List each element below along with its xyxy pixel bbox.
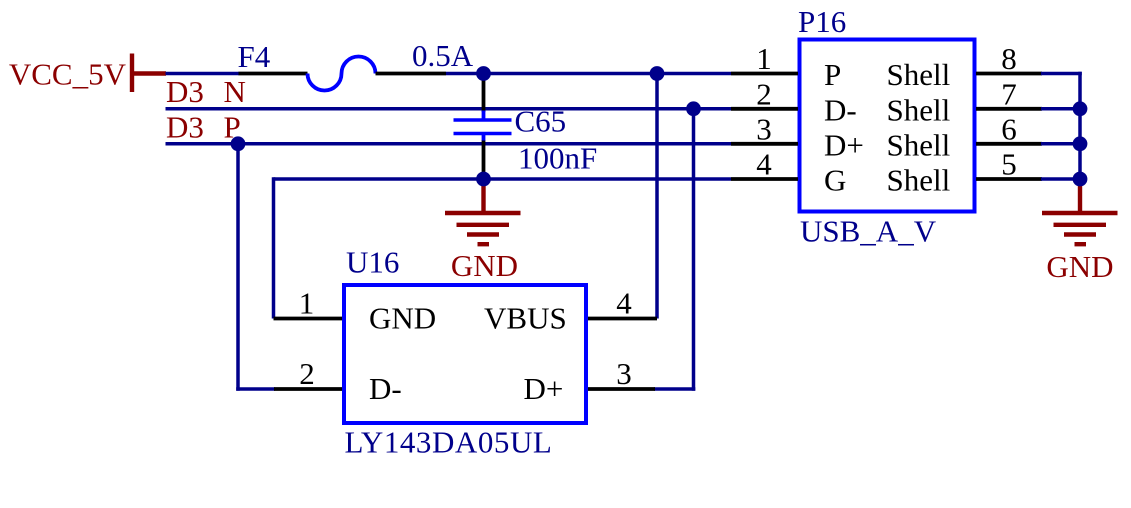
U16 pin 2 wire: [274, 387, 342, 391]
svg-text:1: 1: [756, 41, 772, 76]
junction at GND node: [476, 172, 491, 187]
svg-text:3: 3: [616, 356, 632, 391]
op-amp U16 body: [344, 285, 586, 423]
svg-text:D-: D-: [369, 371, 402, 406]
U16 pin 4 wire: [588, 317, 657, 321]
svg-text:G: G: [824, 163, 846, 198]
U16 pin 1 wire: [274, 317, 343, 321]
svg-text:D+: D+: [524, 371, 564, 406]
svg-text:4: 4: [616, 286, 632, 321]
power port VCC_5V: [9, 54, 166, 93]
wire net GND vertical branch x=273.5: [272, 177, 276, 318]
svg-text:Shell: Shell: [887, 163, 951, 198]
P16 pin 2 wire: [731, 107, 798, 111]
ground symbol GND right: [1042, 179, 1118, 284]
svg-text:2: 2: [299, 356, 315, 391]
junction shell row5: [1073, 172, 1088, 187]
wire net VCC vertical branch x=657 to U16 VBUS: [655, 74, 659, 319]
junction at VBUS branch: [650, 66, 665, 81]
wire net GND row4: [274, 177, 732, 181]
svg-text:C65: C65: [515, 104, 567, 139]
svg-text:D+: D+: [824, 127, 864, 162]
svg-text:U16: U16: [346, 245, 399, 280]
junction shell row7: [1073, 101, 1088, 116]
fuse F4 pin 1: [239, 72, 308, 76]
svg-text:7: 7: [1001, 76, 1017, 111]
wire net D3_N vertical branch x=693.5 to U16 D+: [692, 109, 696, 391]
svg-text:0.5A: 0.5A: [412, 38, 474, 73]
capacitor C65 body: [454, 111, 512, 142]
svg-text:3: 3: [756, 111, 772, 146]
junction shell row6: [1073, 136, 1088, 151]
U16 pin 3 wire: [588, 387, 655, 391]
svg-text:VCC_5V: VCC_5V: [9, 57, 127, 92]
svg-text:1: 1: [299, 286, 315, 321]
svg-text:Shell: Shell: [887, 92, 951, 127]
fuse F4 pin 2: [376, 72, 447, 76]
P16 pin 6 wire: [976, 142, 1042, 146]
svg-text:P16: P16: [798, 4, 846, 39]
wire shell net vertical x=1080: [1078, 72, 1082, 179]
svg-text:6: 6: [1001, 111, 1017, 146]
svg-text:D3: D3: [166, 74, 204, 109]
wire net VCC row1 left segment: [166, 72, 240, 76]
P16 pin 7 wire: [976, 107, 1042, 111]
junction at D3_N / U16 D+ branch: [686, 101, 701, 116]
junction at D3_P / U16 D- branch: [231, 136, 246, 151]
P16 pin 5 wire: [976, 177, 1042, 181]
svg-text:VBUS: VBUS: [484, 301, 567, 336]
wire net D3_P horizontal to U16 pin 2: [236, 387, 275, 391]
wire net D3_N horizontal to U16 pin 3: [654, 387, 695, 391]
svg-text:GND: GND: [1046, 249, 1113, 284]
wire shell net row8: [1041, 72, 1082, 76]
wire net D3_P row3: [166, 142, 732, 146]
P16 pin 1 wire: [731, 72, 798, 76]
svg-text:LY143DA05UL: LY143DA05UL: [345, 425, 553, 460]
svg-text:D-: D-: [824, 92, 857, 127]
P16 pin 3 wire: [731, 142, 798, 146]
svg-text:N: N: [224, 74, 246, 109]
ground symbol GND left: [445, 179, 521, 283]
svg-text:2: 2: [756, 76, 772, 111]
connector P16 body: [800, 40, 975, 212]
P16 pin 4 wire: [731, 177, 798, 181]
svg-text:GND: GND: [369, 301, 436, 336]
junction at fuse/cap node: [476, 66, 491, 81]
svg-text:USB_A_V: USB_A_V: [800, 214, 937, 249]
P16 pin 8 wire: [976, 72, 1042, 76]
wire net D3_P vertical branch x=238: [236, 144, 240, 391]
svg-text:5: 5: [1001, 147, 1017, 182]
svg-text:Shell: Shell: [887, 127, 951, 162]
wire shell net row5: [1041, 177, 1080, 181]
fuse F4 body: [308, 56, 376, 90]
wire shell net row6: [1041, 142, 1080, 146]
svg-text:8: 8: [1001, 41, 1017, 76]
svg-text:4: 4: [756, 147, 772, 182]
capacitor C65 top lead (black wire): [482, 74, 486, 113]
capacitor C65 bottom lead (black wire): [482, 141, 486, 180]
wire net VCC row1 right segment: [446, 72, 731, 76]
wire shell net row7: [1041, 107, 1080, 111]
wire net D3_N row2: [166, 107, 732, 111]
svg-text:GND: GND: [451, 248, 518, 283]
svg-text:D3: D3: [166, 110, 204, 145]
svg-text:P: P: [824, 57, 841, 92]
svg-text:100nF: 100nF: [518, 141, 597, 176]
svg-text:F4: F4: [238, 39, 271, 74]
svg-text:Shell: Shell: [887, 57, 951, 92]
